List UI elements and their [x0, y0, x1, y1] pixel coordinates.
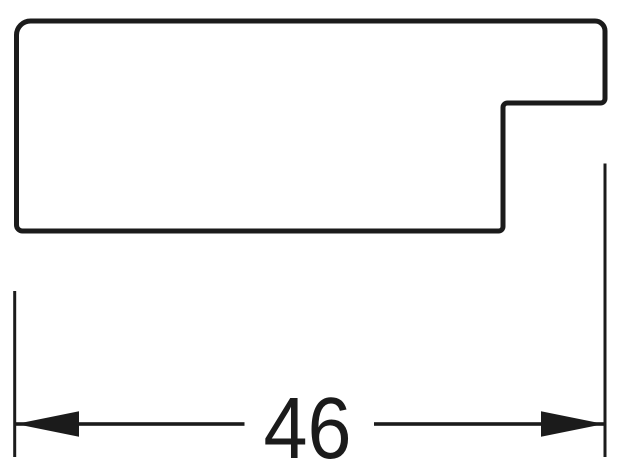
dimension line right segment: [374, 422, 604, 426]
left extension line: [13, 291, 16, 457]
svg-text:46: 46: [263, 380, 351, 476]
moulding profile outline: [17, 21, 606, 231]
right extension line: [604, 164, 607, 458]
left arrowhead: [16, 411, 79, 436]
dimension line left segment: [16, 422, 245, 426]
right arrowhead: [541, 411, 604, 436]
